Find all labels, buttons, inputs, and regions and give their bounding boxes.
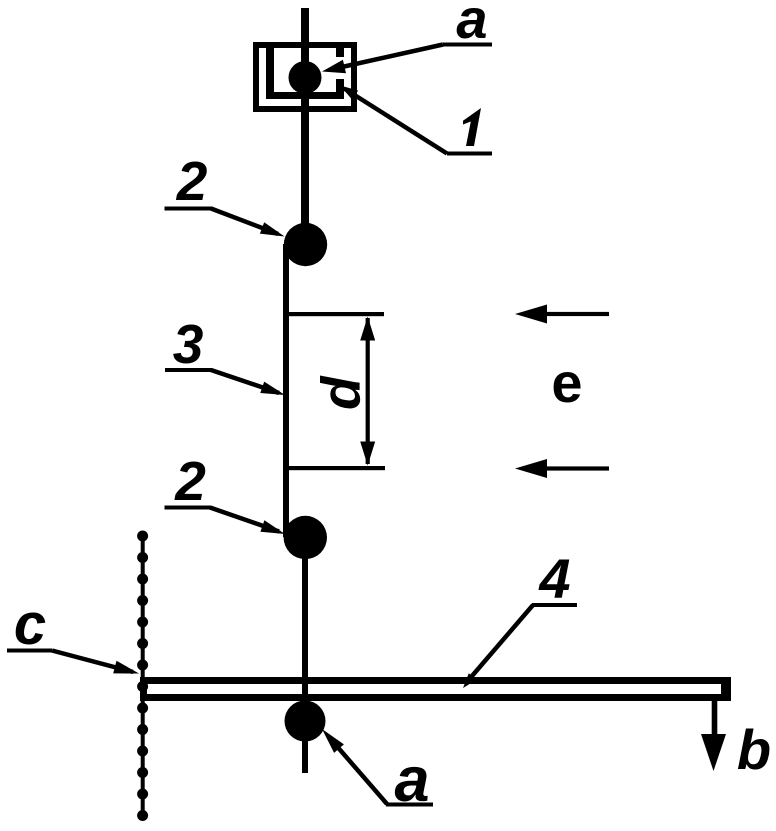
- cross-arm 4 right end cap: [721, 677, 731, 701]
- arrowhead of leader a (top): [322, 60, 346, 74]
- underline of label 4: [532, 603, 577, 607]
- underline of label 1: [447, 152, 492, 156]
- arrowhead of leader a (bottom): [322, 729, 344, 753]
- underline of label 2 (upper): [165, 207, 213, 211]
- force arrow b head: [701, 734, 726, 771]
- support fixture 1 outer box: [256, 45, 354, 109]
- leader line for label a (top): [333, 45, 443, 70]
- underline of label 3: [165, 368, 212, 372]
- underline of label c: [7, 649, 52, 653]
- label 1: [463, 108, 481, 146]
- support fixture 1 inner bracket right lower stub: [336, 79, 344, 95]
- leader line for label 1: [345, 89, 447, 154]
- underline of label a (top): [443, 43, 492, 47]
- svg-text:4: 4: [538, 547, 570, 610]
- dimension d top arrowhead: [360, 317, 375, 341]
- arrowhead of leader 4: [463, 673, 477, 688]
- leader line for label 2 (upper): [211, 209, 278, 235]
- arrowhead of leader c: [113, 661, 139, 674]
- attachment point a : top circle: [289, 61, 322, 94]
- dimension d bottom arrowhead: [360, 442, 375, 466]
- leader line for label a (bottom): [328, 736, 387, 804]
- underline of label 2 (lower): [165, 506, 211, 510]
- datum line c dots: [137, 531, 148, 822]
- clamp 2 upper circle: [284, 223, 327, 266]
- wind arrow e top: [545, 312, 609, 316]
- datum line c (dash-dot): [141, 531, 145, 820]
- attachment point a : bottom circle: [285, 701, 326, 742]
- svg-text:d: d: [310, 375, 372, 410]
- leader line for label c: [52, 651, 133, 673]
- svg-text:e: e: [551, 351, 582, 414]
- wind arrow e top arrowhead: [515, 305, 547, 324]
- arrowhead of leader 2 (lower): [260, 520, 285, 534]
- svg-text:c: c: [14, 592, 46, 657]
- support fixture 1 inner bracket right top stub: [336, 45, 344, 57]
- svg-text:2: 2: [176, 150, 208, 212]
- contact wire 3: [283, 244, 289, 537]
- force arrow b stem: [712, 701, 718, 741]
- svg-text:a: a: [456, 0, 487, 50]
- clamp 2 lower circle: [284, 516, 327, 559]
- wind arrow e bottom arrowhead: [515, 459, 547, 478]
- arrowhead of leader 1: [340, 86, 358, 100]
- dimension d top extension line: [286, 312, 384, 316]
- underline of label a (bottom): [386, 803, 433, 807]
- svg-text:3: 3: [173, 313, 204, 375]
- wind arrow e bottom: [545, 466, 609, 470]
- leader line for label 2 (lower): [210, 508, 279, 532]
- dimension d line: [366, 318, 370, 464]
- mast line: [301, 8, 309, 250]
- support fixture 1 inner bracket (left+bottom): [266, 45, 274, 99]
- arrowhead of leader 2 (upper): [260, 222, 285, 236]
- arrowhead of leader 3: [260, 382, 285, 395]
- svg-text:b: b: [737, 718, 771, 781]
- svg-text:a: a: [394, 745, 429, 815]
- cross-arm 4 bar: [144, 681, 728, 698]
- dimension d bottom extension line: [286, 466, 385, 470]
- lower wire: [302, 537, 308, 773]
- leader line for label 3: [211, 370, 279, 393]
- svg-text:2: 2: [174, 450, 206, 512]
- leader line for label 4: [466, 605, 533, 683]
